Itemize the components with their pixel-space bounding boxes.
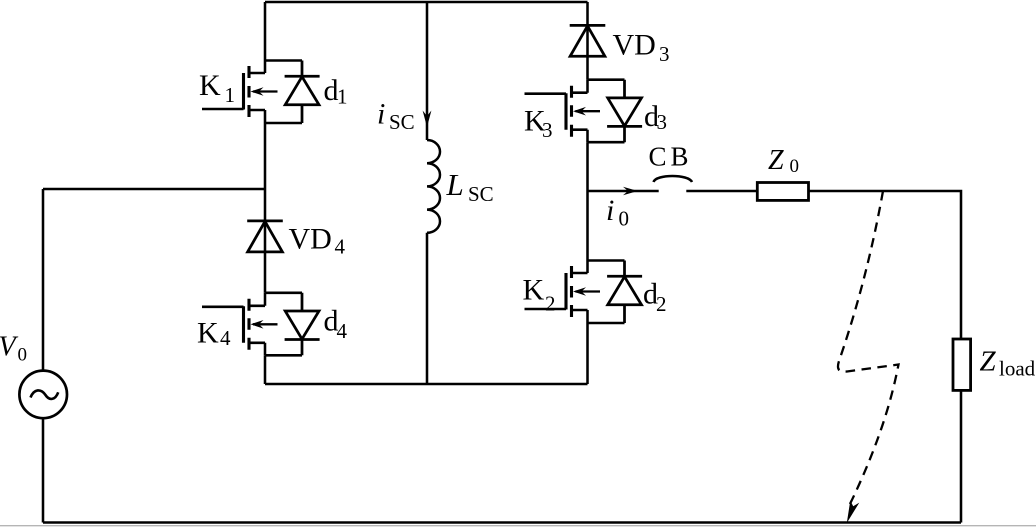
wire left branch K4 to bottom bridge rail bbox=[264, 355, 267, 384]
diode VD3 bbox=[570, 24, 606, 27]
svg-text:K: K bbox=[197, 316, 219, 349]
svg-text:SC: SC bbox=[389, 110, 415, 134]
svg-text:SC: SC bbox=[468, 182, 494, 206]
svg-text:C: C bbox=[649, 142, 667, 172]
wire top rail bbox=[265, 1, 588, 4]
impedance Z_load bbox=[953, 339, 971, 390]
svg-text:Z: Z bbox=[768, 145, 784, 176]
svg-text:0: 0 bbox=[619, 206, 630, 230]
fault lightning arrow (dashed) bbox=[838, 191, 899, 505]
svg-text:2: 2 bbox=[545, 291, 556, 315]
svg-text:V: V bbox=[0, 332, 19, 363]
svg-text:0: 0 bbox=[18, 345, 28, 366]
diode d4 (body diode) bbox=[285, 293, 320, 356]
wire right branch K2 to bottom bridge rail bbox=[586, 323, 589, 384]
current arrow i0 bbox=[623, 187, 638, 196]
svg-text:4: 4 bbox=[220, 326, 231, 350]
diode d1 (body diode) bbox=[285, 61, 320, 124]
wire mid-left (source node to bridge) bbox=[43, 188, 265, 191]
wire CB to Z0 bbox=[686, 190, 757, 193]
inductor L_SC bbox=[427, 140, 440, 233]
svg-text:i: i bbox=[606, 194, 614, 227]
svg-text:0: 0 bbox=[790, 156, 800, 177]
svg-text:load: load bbox=[999, 357, 1036, 381]
svg-text:i: i bbox=[377, 98, 385, 131]
transistor K4 (MOSFET) bbox=[202, 293, 302, 356]
wire Z0 to right corner and down to Zload bbox=[809, 191, 962, 339]
svg-text:K: K bbox=[199, 69, 221, 102]
wire inductor branch lower bbox=[426, 233, 429, 384]
diode d3 (body diode) bbox=[607, 80, 642, 143]
svg-text:4: 4 bbox=[337, 319, 348, 343]
svg-text:3: 3 bbox=[542, 118, 553, 142]
wire left branch K1-source to VD4 and through VD4 to K4 bbox=[264, 123, 267, 293]
svg-text:L: L bbox=[446, 167, 464, 202]
transistor K2 (MOSFET) bbox=[525, 261, 625, 324]
transistor K3 (MOSFET) bbox=[525, 80, 625, 143]
svg-text:VD: VD bbox=[613, 29, 656, 62]
svg-text:4: 4 bbox=[335, 235, 346, 259]
wire right branch K3 to K2 (output node) bbox=[586, 142, 589, 260]
wire output node to CB gap bbox=[588, 190, 659, 193]
wire inductor branch upper bbox=[426, 2, 429, 140]
svg-text:B: B bbox=[671, 142, 689, 172]
svg-text:3: 3 bbox=[657, 110, 668, 134]
svg-text:1: 1 bbox=[337, 85, 348, 109]
scan artifact line at bottom edge bbox=[0, 525, 1036, 527]
svg-text:2: 2 bbox=[656, 292, 667, 316]
svg-text:3: 3 bbox=[659, 42, 670, 66]
wire right branch upper (through VD3 to K3) bbox=[586, 2, 589, 80]
wire left branch upper (to K1 drain) bbox=[264, 2, 267, 61]
svg-text:K: K bbox=[523, 274, 545, 307]
svg-text:1: 1 bbox=[225, 83, 236, 107]
wire left vertical lower (V0 to bottom) bbox=[42, 418, 45, 522]
wire bottom rail bbox=[43, 521, 961, 524]
diode VD4 bbox=[247, 220, 283, 223]
impedance Z0 bbox=[757, 183, 808, 201]
wire left vertical upper (to V0) bbox=[42, 189, 45, 370]
circuit breaker CB bbox=[654, 176, 693, 182]
transistor K1 (MOSFET) bbox=[202, 61, 302, 124]
wire bridge bottom rail bbox=[265, 383, 588, 386]
AC source V0 bbox=[19, 371, 67, 419]
svg-text:VD: VD bbox=[289, 223, 332, 256]
svg-text:Z: Z bbox=[980, 346, 997, 378]
current arrow i_SC bbox=[423, 111, 432, 128]
wire Zload to bottom rail bbox=[960, 391, 963, 523]
diode d2 (body diode) bbox=[607, 261, 642, 324]
